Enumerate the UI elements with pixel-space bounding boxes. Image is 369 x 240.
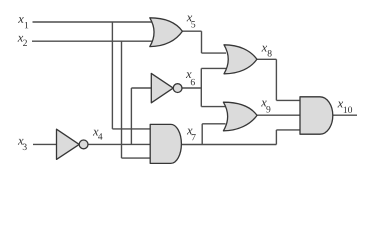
label x4 — [93, 130, 103, 140]
wire x7 branch to OR3 bottom input — [202, 123, 225, 125]
wire x7 vertical up to AND2 — [275, 130, 277, 145]
OR gate G5 output x8 — [224, 45, 257, 74]
label x1 — [18, 17, 28, 28]
wire x7 branch vertical up — [201, 124, 203, 145]
wire x6 vertical node — [200, 68, 202, 106]
label x5 — [187, 16, 196, 28]
label x7 — [187, 129, 196, 141]
wire x3 input horizontal — [33, 143, 58, 145]
wire x2 branch vertical — [121, 41, 123, 158]
label x8 — [261, 46, 271, 57]
wire x6 to OR2 bottom input — [201, 67, 226, 69]
label x10 — [337, 102, 352, 113]
label x9 — [261, 101, 270, 113]
NOT gate G3 bubble — [79, 140, 88, 149]
NOT gate G2 bubble — [173, 84, 182, 93]
OR gate G1 output x5 — [150, 18, 183, 47]
label x3 — [18, 139, 27, 150]
wire node x4 horizontal to AND1 middle input — [88, 143, 152, 145]
wire x2 input horizontal — [32, 40, 153, 42]
wire x4 branch to NOT1 input — [131, 87, 152, 89]
AND gate G4 output x7 — [150, 124, 181, 163]
label x6 — [186, 72, 195, 85]
label x2 — [18, 36, 27, 46]
wire x1 branch to AND1 top input — [112, 128, 151, 130]
wire x10 output — [333, 114, 357, 116]
wire x9 from OR3 output to AND2 middle input — [257, 114, 302, 116]
wire x5 vertical down — [201, 31, 203, 53]
wire x5 to OR2 top input — [202, 52, 227, 54]
wire x8 from OR2 output — [257, 58, 277, 60]
wire x1 branch vertical — [111, 22, 113, 129]
wire x2 branch to AND1 bottom input — [122, 157, 152, 159]
NOT gate G3 input x3 output x4 — [57, 129, 80, 159]
wire x6 to OR3 top input — [201, 106, 225, 108]
wire x6 from NOT1 output — [182, 87, 202, 89]
wire x5 from OR1 output — [182, 30, 202, 32]
NOT gate G2 output x6 — [151, 73, 173, 102]
wire x8 to AND2 top input — [276, 99, 301, 101]
wire x4 branch vertical up — [130, 88, 132, 144]
OR gate G6 output x9 — [223, 102, 257, 131]
wire x1 input horizontal — [33, 21, 154, 23]
wire x8 vertical down — [275, 59, 277, 100]
wire x7 to AND2 bottom input — [276, 129, 301, 131]
AND gate G7 output x10 — [300, 97, 333, 134]
wire x7 from AND1 output — [181, 144, 276, 146]
